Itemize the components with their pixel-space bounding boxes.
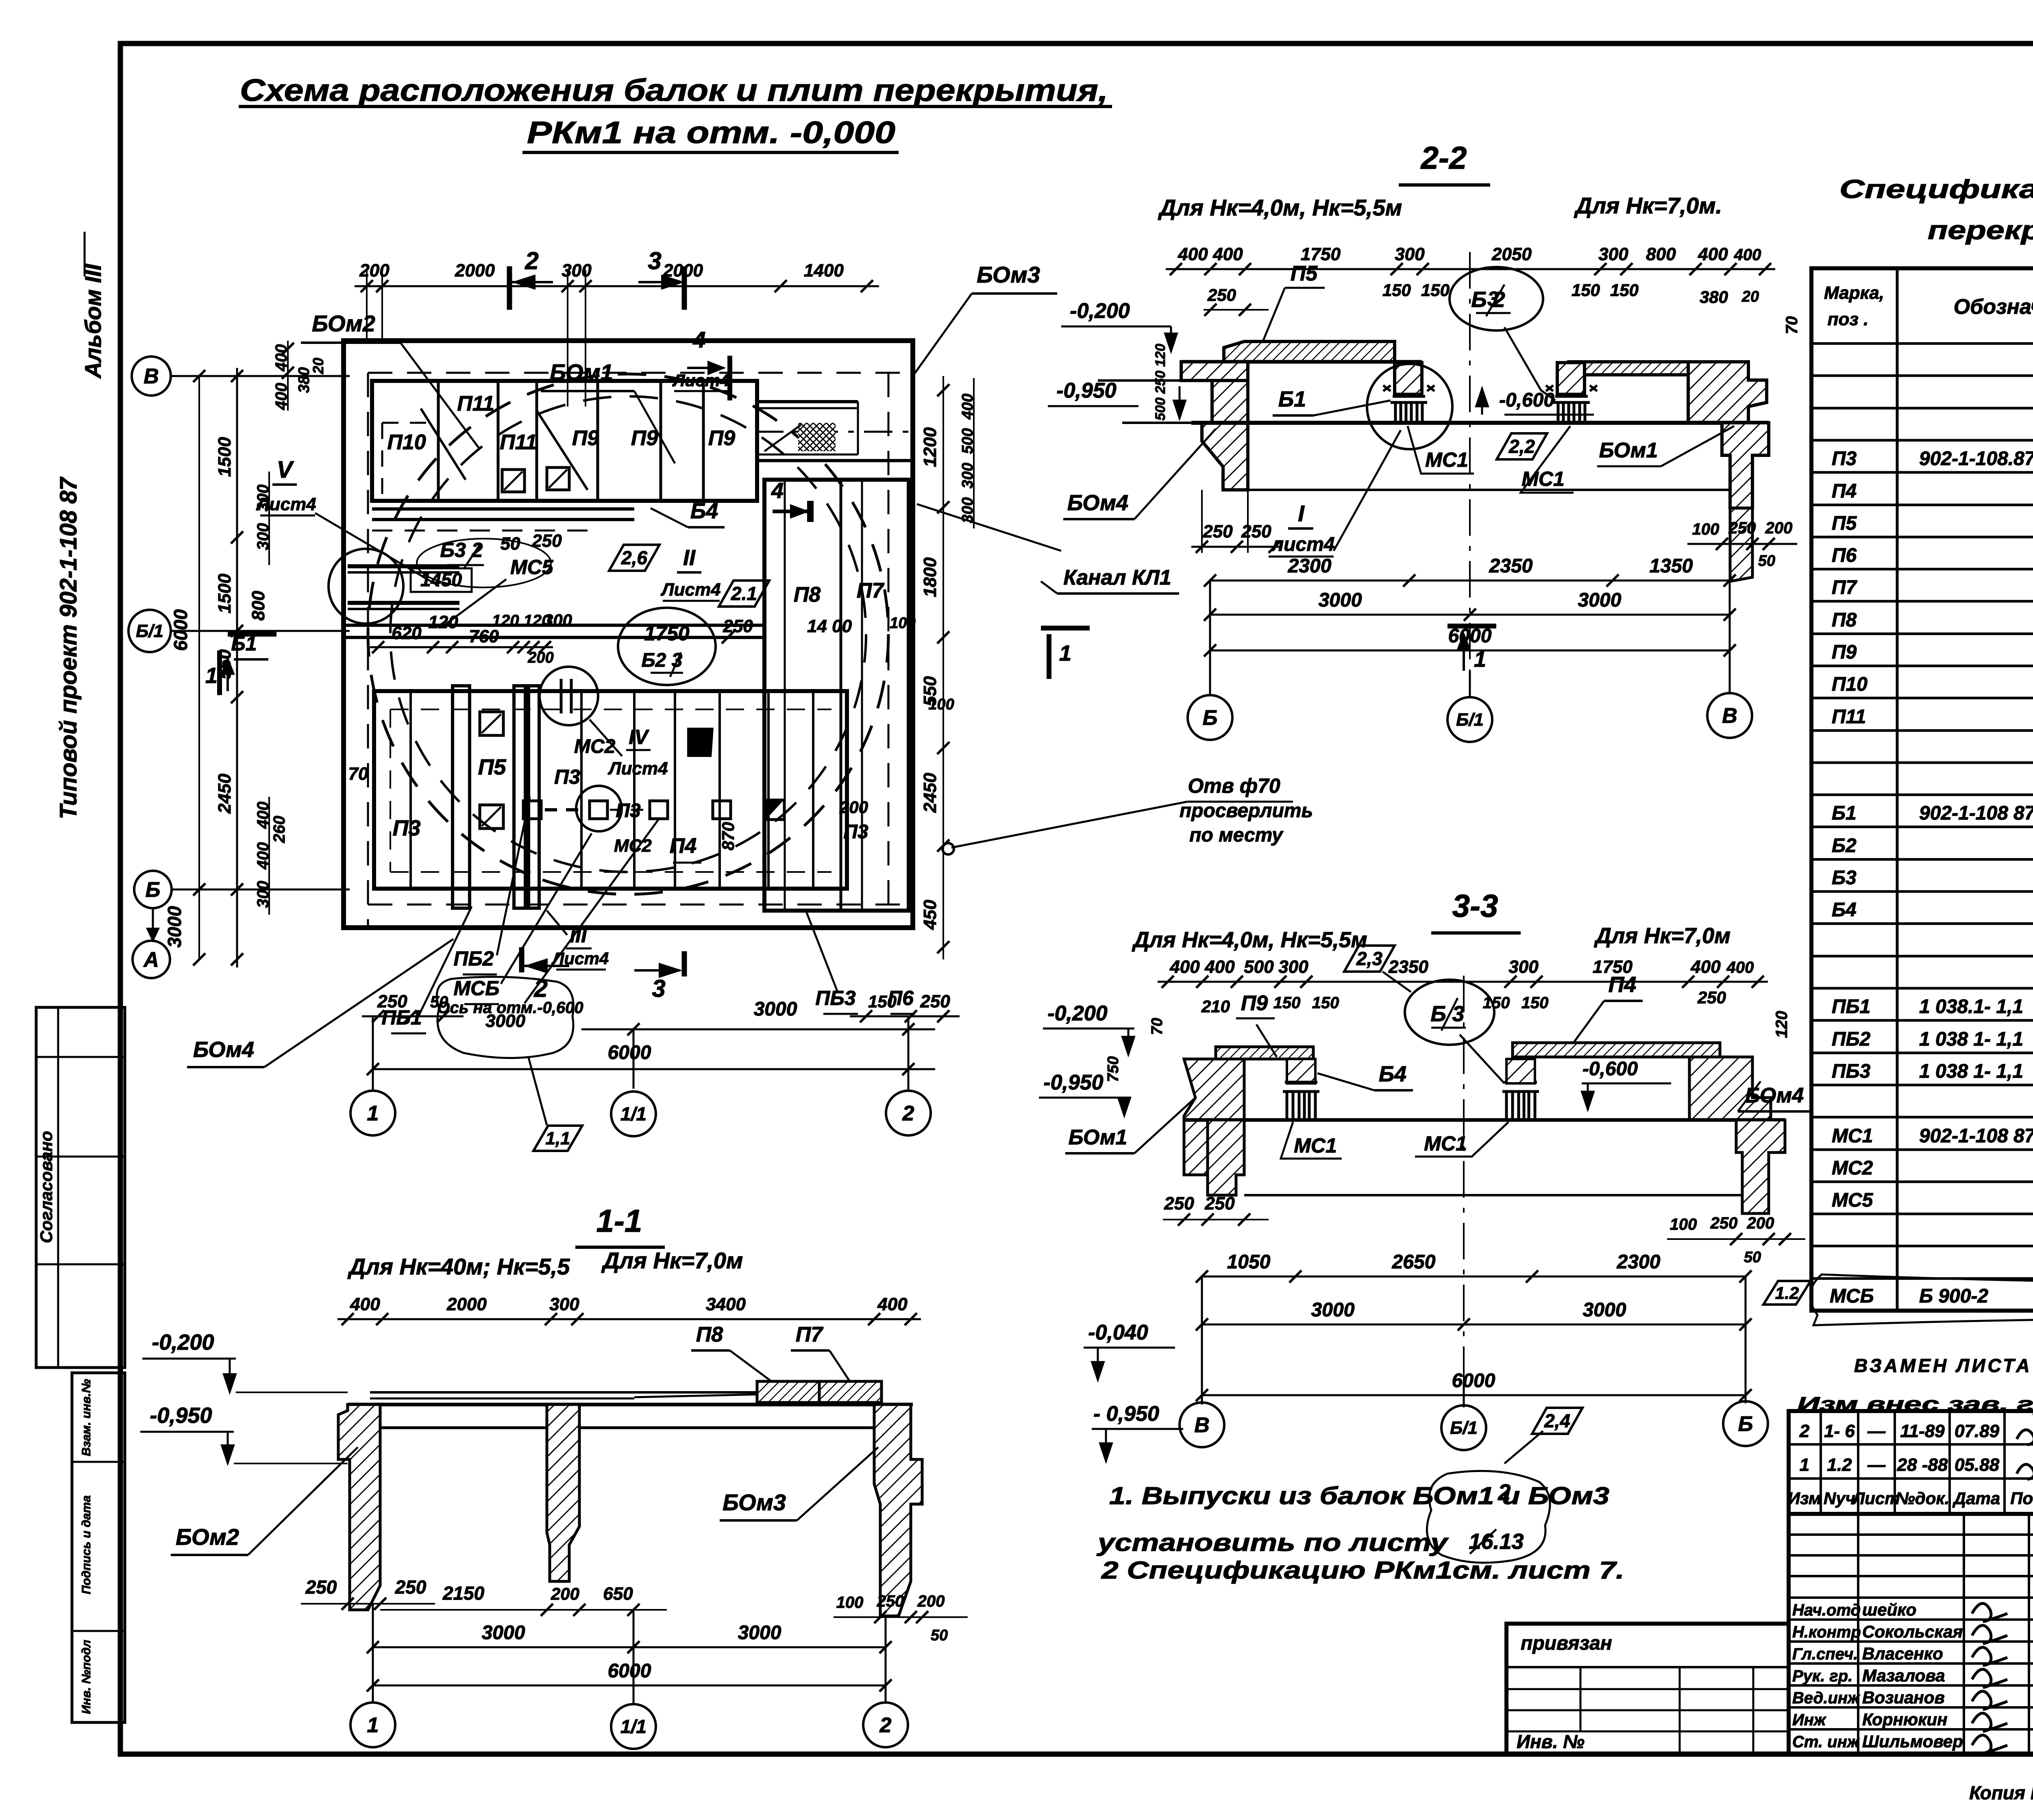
svg-text:1200: 1200 — [920, 427, 940, 467]
svg-text:Ст. инж: Ст. инж — [1792, 1733, 1860, 1751]
svg-text:400: 400 — [1726, 959, 1754, 976]
svg-text:ПБ2: ПБ2 — [1832, 1029, 1871, 1050]
plan window squares lower — [480, 712, 503, 735]
svg-text:Отв ф70: Отв ф70 — [1188, 774, 1280, 797]
svg-text:100: 100 — [1670, 1216, 1697, 1233]
svg-text:П3: П3 — [843, 821, 868, 843]
svg-text:70: 70 — [1783, 316, 1801, 335]
plan section cut mark 1 right — [1047, 634, 1051, 679]
svg-text:50: 50 — [931, 1627, 948, 1644]
plan crosshatch patch — [798, 423, 836, 451]
svg-text:300: 300 — [1395, 244, 1425, 264]
svg-text:500: 500 — [1244, 957, 1274, 977]
section 2-2 left wall body — [1212, 381, 1248, 423]
section 2-2 beam Б1 — [1395, 363, 1422, 394]
svg-text:просверлить: просверлить — [1180, 800, 1313, 822]
plan beam under top slabs — [372, 507, 634, 511]
svg-text:400: 400 — [1212, 244, 1243, 264]
svg-text:2-2: 2-2 — [1420, 140, 1467, 176]
svg-text:П9: П9 — [631, 426, 658, 450]
svg-text:250: 250 — [1710, 1214, 1738, 1232]
plan break diagonals top-left — [421, 409, 466, 480]
section 3-3 МС1 column left — [1283, 1082, 1319, 1120]
svg-text:2000: 2000 — [455, 261, 495, 281]
svg-text:-0,950: -0,950 — [1056, 379, 1117, 402]
svg-text:200: 200 — [359, 261, 390, 281]
svg-text:150: 150 — [1382, 281, 1411, 300]
svg-text:Б3: Б3 — [1832, 867, 1857, 889]
svg-text:БОм1: БОм1 — [1599, 439, 1658, 462]
plan axis circle А — [133, 941, 170, 978]
svg-text:П4: П4 — [1609, 972, 1637, 997]
svg-text:БОм4: БОм4 — [1067, 491, 1128, 515]
section 2-2 left wall flange — [1181, 362, 1248, 381]
svg-text:П10: П10 — [1832, 674, 1868, 695]
svg-text:—: — — [1867, 1421, 1886, 1441]
svg-text:П3: П3 — [616, 800, 641, 822]
svg-text:2.1: 2.1 — [731, 583, 757, 604]
svg-text:2450: 2450 — [215, 774, 235, 814]
svg-text:150: 150 — [868, 992, 897, 1011]
svg-text:Б2: Б2 — [1832, 835, 1857, 857]
svg-text:-0,200: -0,200 — [1047, 1002, 1108, 1025]
svg-text:Б1: Б1 — [1278, 387, 1306, 411]
section 3-3 flag 2,4 — [1532, 1408, 1582, 1434]
plan section cut mark 1 left — [217, 650, 222, 695]
plan oval 1750 Б3 — [618, 608, 716, 685]
svg-text:ПБ3: ПБ3 — [1832, 1061, 1871, 1082]
section 1-1 slab line — [370, 1391, 758, 1394]
section 2-2 mid axis dash-dot — [1469, 252, 1471, 691]
svg-text:Возианов: Возианов — [1862, 1688, 1945, 1707]
svg-text:перекрытия РКм1на отм. 0,000: перекрытия РКм1на отм. 0,000 — [1928, 215, 2033, 245]
svg-text:1500: 1500 — [215, 437, 235, 477]
svg-text:250: 250 — [920, 992, 950, 1011]
svg-text:3000: 3000 — [164, 906, 185, 948]
svg-text:ПБ2: ПБ2 — [453, 947, 494, 970]
title block staff grid — [1789, 1533, 2033, 1536]
svg-text:IV: IV — [629, 726, 649, 748]
plan axis circle Б — [134, 871, 172, 908]
svg-text:28 -88: 28 -88 — [1897, 1455, 1948, 1475]
svg-text:150: 150 — [1483, 994, 1510, 1012]
revision signatures squiggles — [2017, 1430, 2033, 1445]
svg-text:Б4: Б4 — [1379, 1062, 1406, 1086]
svg-text:Лист4: Лист4 — [660, 580, 720, 600]
svg-text:150: 150 — [1273, 994, 1301, 1012]
svg-text:2450: 2450 — [920, 773, 940, 813]
svg-text:Изм: Изм — [1788, 1489, 1821, 1508]
svg-text:902-1-108.87-КЖ1И.П 3: 902-1-108.87-КЖ1И.П 3 — [1919, 448, 2033, 470]
svg-text:1/1: 1/1 — [620, 1716, 646, 1737]
svg-text:3400: 3400 — [706, 1294, 746, 1314]
svg-text:300: 300 — [562, 261, 592, 281]
svg-text:III: III — [570, 924, 587, 947]
svg-text:-0,200: -0,200 — [152, 1330, 214, 1355]
svg-text:шейко: шейко — [1862, 1600, 1916, 1619]
svg-text:100: 100 — [890, 615, 915, 632]
svg-text:Nуч: Nуч — [1824, 1489, 1855, 1508]
svg-text:3000: 3000 — [754, 998, 797, 1020]
svg-text:П4: П4 — [1832, 481, 1857, 502]
svg-text:300: 300 — [1278, 957, 1308, 977]
plan bottom axis circles — [372, 1016, 374, 1089]
spec table grid — [1811, 268, 2033, 1311]
svg-text:I: I — [1298, 500, 1305, 526]
svg-text:250: 250 — [1164, 1194, 1194, 1213]
svg-text:120 120: 120 120 — [492, 612, 551, 630]
plan top-right channel КЛ1 — [755, 400, 858, 403]
svg-text:650: 650 — [603, 1584, 633, 1604]
svg-text:П9: П9 — [572, 426, 599, 450]
svg-text:П11: П11 — [1832, 706, 1866, 728]
svg-text:2650: 2650 — [1392, 1251, 1436, 1273]
svg-text:П5: П5 — [1832, 513, 1857, 534]
svg-text:100: 100 — [928, 696, 954, 713]
section 1-1 mid wall — [547, 1405, 579, 1581]
svg-text:Вед.инж: Вед.инж — [1792, 1689, 1861, 1707]
section 2-2 right pier below — [1722, 423, 1769, 508]
section 3-3 slab П9 left — [1216, 1047, 1313, 1059]
svg-text:3-3: 3-3 — [1452, 888, 1498, 924]
svg-text:1-1: 1-1 — [596, 1203, 642, 1239]
svg-text:6000: 6000 — [170, 609, 191, 651]
svg-text:П3: П3 — [554, 765, 580, 788]
svg-text:МС5: МС5 — [510, 556, 554, 578]
svg-text:Для Нк=4,0м, Нк=5,5м: Для Нк=4,0м, Нк=5,5м — [1132, 928, 1367, 952]
section 3-3 right wall — [1689, 1057, 1771, 1120]
svg-text:400: 400 — [877, 1294, 908, 1314]
svg-text:120: 120 — [428, 612, 458, 632]
plan revision blob bottom — [437, 977, 573, 1058]
svg-text:3000: 3000 — [485, 1011, 525, 1031]
title block main — [1789, 1514, 2033, 1754]
plan flag 2.6 — [609, 545, 660, 571]
svg-text:-0,600: -0,600 — [1582, 1058, 1638, 1080]
svg-text:Лист4: Лист4 — [607, 759, 668, 778]
section 2-2 oval Б32 — [1450, 267, 1543, 331]
section 1-1 left wall — [338, 1405, 380, 1610]
svg-text:2050: 2050 — [1491, 244, 1532, 264]
svg-text:-0,200: -0,200 — [1070, 299, 1130, 323]
svg-text:1.2: 1.2 — [1775, 1283, 1799, 1302]
plan outer wall — [344, 341, 913, 928]
section 2-2 floor line — [1191, 421, 1769, 425]
svg-text:Б/1: Б/1 — [136, 621, 163, 641]
section 2-2 left pier below floor — [1202, 423, 1248, 490]
section 2-2 channel lines left — [1098, 379, 1181, 382]
svg-text:400: 400 — [1178, 244, 1208, 264]
svg-text:В: В — [1194, 1413, 1210, 1437]
plan axis lines — [171, 375, 350, 377]
svg-text:870: 870 — [718, 822, 738, 850]
svg-text:МС2: МС2 — [1832, 1157, 1873, 1179]
svg-text:Подпись и дата: Подпись и дата — [80, 1495, 93, 1594]
svg-text:2 Спецификацию РКм1см. лист 7: 2 Спецификацию РКм1см. лист 7. — [1101, 1557, 1624, 1584]
plan lower slab inner dashed offset — [390, 709, 831, 710]
section 2-2 axis circles — [1209, 581, 1211, 695]
svg-text:БОм2: БОм2 — [312, 311, 375, 336]
svg-text:П3: П3 — [1832, 448, 1857, 470]
svg-text:Б4: Б4 — [690, 499, 718, 523]
svg-text:П6: П6 — [1832, 545, 1857, 566]
section 3-3 beam Б4 left stub — [1287, 1059, 1315, 1083]
svg-text:П11: П11 — [500, 431, 537, 454]
svg-text:Спецификация к схеме расположе: Спецификация к схеме расположения — [1839, 174, 2033, 204]
svg-text:1400: 1400 — [804, 261, 844, 281]
svg-text:ВЗАМЕН ЛИСТА 3: ВЗАМЕН ЛИСТА 3 — [1854, 1355, 2033, 1376]
svg-text:250: 250 — [1728, 519, 1756, 537]
section 1-1 right wall — [874, 1405, 922, 1616]
svg-text:РКм1 на отм. -0,000: РКм1 на отм. -0,000 — [527, 115, 895, 150]
svg-text:Гл.спеч.: Гл.спеч. — [1792, 1645, 1858, 1663]
svg-text:100: 100 — [836, 1594, 864, 1611]
svg-text:3000: 3000 — [1311, 1299, 1355, 1321]
svg-text:200: 200 — [1747, 1214, 1774, 1232]
section 2-2 МС1 column left — [1391, 396, 1427, 423]
svg-text:П9: П9 — [1241, 992, 1268, 1015]
svg-text:П8: П8 — [696, 1323, 723, 1346]
section 3-3 slab П4 right — [1513, 1043, 1720, 1057]
svg-text:400: 400 — [1734, 246, 1761, 264]
svg-text:1: 1 — [1059, 641, 1071, 665]
svg-text:1 038.1- 1,1: 1 038.1- 1,1 — [1919, 996, 2023, 1018]
svg-text:Б4: Б4 — [1832, 899, 1857, 921]
svg-text:МС2: МС2 — [574, 736, 616, 757]
section 2-2 right beam stub — [1557, 363, 1585, 394]
svg-text:3000: 3000 — [1319, 589, 1362, 611]
svg-text:П7: П7 — [857, 579, 884, 602]
svg-text:250: 250 — [395, 1576, 427, 1598]
svg-text:05.88: 05.88 — [1955, 1455, 2000, 1475]
svg-text:Для Нк=7,0м.: Для Нк=7,0м. — [1574, 193, 1722, 218]
svg-text:П9: П9 — [708, 426, 735, 450]
svg-text:14 00: 14 00 — [807, 616, 852, 636]
svg-text:200: 200 — [917, 1592, 945, 1610]
svg-text:—: — — [1867, 1455, 1886, 1475]
svg-text:300: 300 — [1508, 957, 1539, 977]
svg-text:1.2: 1.2 — [1827, 1455, 1852, 1475]
svg-text:1: 1 — [367, 1713, 379, 1737]
svg-text:400: 400 — [1698, 244, 1728, 264]
svg-text:Схема расположения балок и пли: Схема расположения балок и плит перекрыт… — [240, 73, 1108, 108]
section 2-2 МС1 column right — [1553, 396, 1590, 423]
svg-text:150: 150 — [1521, 994, 1549, 1012]
svg-text:250: 250 — [531, 531, 562, 551]
section 3-3 flag 2,3 — [1344, 946, 1395, 972]
svg-text:Согласовано: Согласовано — [37, 1131, 56, 1243]
svg-text:Б/1: Б/1 — [1456, 710, 1484, 730]
svg-text:1750: 1750 — [644, 622, 689, 645]
svg-text:Инв. №: Инв. № — [1517, 1731, 1585, 1752]
svg-text:250: 250 — [1204, 1194, 1235, 1213]
svg-text:1500: 1500 — [215, 574, 235, 613]
svg-text:50: 50 — [430, 993, 448, 1011]
svg-text:2,4: 2,4 — [1544, 1410, 1570, 1431]
svg-text:250: 250 — [377, 992, 407, 1011]
svg-text:2,2: 2,2 — [1508, 436, 1535, 457]
svg-text:привязан: привязан — [1521, 1633, 1612, 1654]
svg-text:200: 200 — [551, 1584, 579, 1603]
plan section cut marks 2 and 3 top — [507, 266, 512, 310]
section 1-1 top dimension chain — [337, 1318, 921, 1320]
svg-text:Канал КЛ1: Канал КЛ1 — [1063, 566, 1171, 589]
svg-text:-0,040: -0,040 — [1088, 1321, 1148, 1344]
svg-text:1: 1 — [1474, 647, 1486, 672]
svg-text:Б: Б — [146, 878, 161, 902]
svg-text:450: 450 — [920, 900, 940, 930]
svg-text:Обозначение: Обозначение — [1954, 295, 2033, 319]
svg-text:150: 150 — [1312, 994, 1339, 1012]
svg-text:70: 70 — [1149, 1018, 1166, 1035]
section 3-3 top dimension chain — [1158, 981, 1768, 983]
svg-text:П3: П3 — [393, 816, 421, 840]
svg-text:6000: 6000 — [608, 1660, 651, 1682]
svg-text:1- 6: 1- 6 — [1824, 1421, 1855, 1441]
svg-text:400: 400 — [1690, 957, 1721, 977]
plan axis circle В — [132, 357, 171, 396]
svg-text:П5: П5 — [478, 755, 507, 779]
svg-text:Для Нк=7,0м: Для Нк=7,0м — [1594, 924, 1730, 948]
svg-text:11-89: 11-89 — [1900, 1421, 1945, 1441]
svg-text:Подп: Подп — [2010, 1489, 2033, 1508]
svg-text:ПБ1: ПБ1 — [1832, 996, 1870, 1018]
svg-text:300: 300 — [549, 1294, 579, 1314]
section 2-2 underfloor line — [1248, 489, 1730, 491]
svg-text:МС1: МС1 — [1424, 1132, 1467, 1155]
svg-text:Б: Б — [1203, 706, 1218, 730]
svg-text:МСБ: МСБ — [453, 977, 499, 1000]
svg-text:300: 300 — [1598, 244, 1628, 264]
svg-text:Копия Майстеренко: Копия Майстеренко — [1969, 1782, 2033, 1803]
section 3-3 left wall — [1184, 1059, 1244, 1175]
plan top slab block П10-П9 — [372, 381, 757, 501]
svg-text:Для Нк=4,0м, Нк=5,5м: Для Нк=4,0м, Нк=5,5м — [1158, 195, 1402, 220]
svg-text:3000: 3000 — [738, 1622, 781, 1644]
plan П10 inner dashed rect — [382, 422, 435, 424]
plan mid dimension chain 620-760 — [370, 646, 553, 648]
section 1-1 slabs П8 П7 hatched — [757, 1381, 819, 1403]
svg-text:2350: 2350 — [1388, 957, 1428, 977]
plan axis circle Б/1 — [128, 610, 171, 652]
section 2-2 soffit line — [1181, 360, 1422, 364]
svg-text:П10: П10 — [387, 431, 426, 454]
svg-text:БОм2: БОм2 — [176, 1524, 239, 1550]
plan bottom wall hidden edge — [368, 904, 913, 906]
svg-text:Власенко: Власенко — [1862, 1644, 1943, 1663]
plan small embed squares top — [502, 470, 525, 492]
svg-text:2300: 2300 — [1288, 555, 1332, 577]
plan lower slab dividers — [409, 691, 412, 889]
svg-text:2300: 2300 — [1617, 1251, 1661, 1273]
svg-text:МС1: МС1 — [1832, 1125, 1873, 1147]
svg-text:БОм1: БОм1 — [1069, 1126, 1128, 1149]
svg-text:Сокольская: Сокольская — [1862, 1622, 1963, 1641]
svg-text:2: 2 — [879, 1713, 892, 1737]
section 2-2 top dimension chain — [1166, 268, 1775, 270]
svg-text:50: 50 — [501, 534, 520, 554]
svg-text:3000: 3000 — [482, 1622, 525, 1644]
svg-text:1 038 1- 1,1: 1 038 1- 1,1 — [1919, 1061, 2023, 1082]
plan left dimension chain inner — [236, 368, 238, 968]
section 2-2 right slab П11 — [1569, 362, 1731, 375]
svg-text:Корнюкин: Корнюкин — [1862, 1710, 1948, 1729]
svg-text:380: 380 — [1700, 287, 1728, 307]
svg-text:П8: П8 — [794, 583, 821, 607]
section 3-3 left pier below — [1208, 1120, 1244, 1195]
svg-text:2000: 2000 — [663, 261, 703, 281]
svg-text:210: 210 — [1201, 997, 1230, 1016]
section 2-2 right wall — [1688, 362, 1767, 423]
svg-text:2,3: 2,3 — [1356, 948, 1382, 969]
section 3-3 mid axis — [1463, 976, 1465, 1382]
svg-text:МС5: МС5 — [1832, 1189, 1874, 1211]
svg-text:БОм4: БОм4 — [193, 1037, 254, 1062]
svg-text:Б1: Б1 — [1832, 802, 1857, 824]
section 2-2 cut mark 1 — [1447, 624, 1496, 628]
svg-text:250: 250 — [1697, 988, 1726, 1007]
plan top dimension chain — [355, 285, 879, 287]
svg-text:- 0,950: - 0,950 — [1093, 1402, 1159, 1426]
svg-text:250: 250 — [305, 1576, 337, 1598]
svg-text:16.13: 16.13 — [1469, 1529, 1524, 1554]
svg-text:-0,600: -0,600 — [1499, 389, 1554, 411]
plan top wall hidden edge — [368, 372, 913, 374]
svg-text:МСБ: МСБ — [1830, 1285, 1874, 1307]
section 3-3 axis circles — [1201, 1276, 1203, 1405]
plan right slabs П8 П7 — [764, 480, 909, 911]
revision table — [1789, 1411, 2033, 1514]
svg-text:50: 50 — [1758, 552, 1775, 570]
svg-text:1750: 1750 — [1301, 244, 1341, 264]
svg-text:50: 50 — [1744, 1249, 1761, 1266]
plan section circle III — [540, 667, 598, 725]
section 1-1 beam band — [348, 1403, 913, 1407]
svg-text:Б 3: Б 3 — [1430, 1002, 1464, 1026]
svg-text:П5: П5 — [1291, 262, 1318, 285]
svg-text:1: 1 — [1800, 1455, 1809, 1475]
plan lower slab area — [374, 691, 847, 889]
svg-text:МС1: МС1 — [1294, 1134, 1337, 1157]
svg-text:1: 1 — [367, 1102, 379, 1125]
svg-text:БОм3: БОм3 — [977, 262, 1040, 287]
plan right dimension chains — [942, 376, 944, 959]
svg-text:20: 20 — [310, 358, 326, 374]
svg-text:902-1-108 87-КЖ1И-Б1: 902-1-108 87-КЖ1И-Б1 — [1919, 802, 2033, 824]
svg-text:В: В — [1722, 704, 1737, 728]
svg-text:Марка,: Марка, — [1824, 283, 1884, 303]
privyazan block — [1506, 1624, 1789, 1754]
plan МС5 channel bars — [348, 564, 459, 568]
svg-text:6000: 6000 — [608, 1042, 651, 1063]
svg-text:150: 150 — [1572, 281, 1600, 300]
spec oval around МСБ row — [1810, 1274, 2033, 1325]
svg-text:70: 70 — [348, 764, 368, 784]
svg-text:200: 200 — [527, 649, 553, 666]
svg-text:1350: 1350 — [1650, 555, 1693, 577]
section 3-3 МС1 column right — [1502, 1082, 1539, 1120]
svg-text:ПБ3: ПБ3 — [815, 987, 855, 1009]
svg-text:6000: 6000 — [1452, 1370, 1495, 1392]
svg-text:400: 400 — [350, 1294, 380, 1314]
svg-text:4: 4 — [692, 327, 705, 352]
plan leader Канал КЛ1 line — [917, 504, 1061, 551]
svg-text:1050: 1050 — [1227, 1251, 1271, 1273]
svg-text:1800: 1800 — [920, 557, 940, 597]
plan section cut marks 2 and 3 bottom — [519, 947, 525, 972]
svg-text:Для Нк=40м; Нк=5,5: Для Нк=40м; Нк=5,5 — [348, 1254, 570, 1279]
svg-text:Лист: Лист — [1852, 1489, 1900, 1508]
